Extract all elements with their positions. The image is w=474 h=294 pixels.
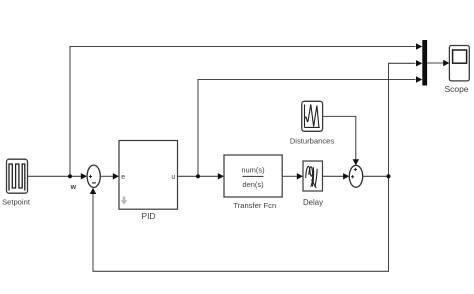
svg-text:Delay: Delay: [303, 198, 323, 207]
wire u branch to Mux: [198, 80, 416, 177]
wire Setpoint to Sum1: [28, 175, 82, 177]
block PID: [119, 141, 178, 210]
sum block Sum2: [349, 165, 362, 187]
svg-text:PID: PID: [141, 211, 155, 221]
PID badge arrow: [121, 197, 128, 205]
wire PID to Transfer Fcn: [178, 175, 219, 177]
svg-text:num(s): num(s): [241, 166, 265, 175]
wire Transfer Fcn to Delay: [282, 175, 297, 177]
junction output node: [386, 174, 390, 178]
arrowhead into PID: [113, 173, 119, 179]
block Delay: [303, 161, 323, 191]
svg-text:den(s): den(s): [242, 180, 264, 189]
svg-text:u: u: [171, 174, 175, 181]
block Disturbances: [302, 101, 323, 131]
svg-text:e: e: [121, 174, 125, 181]
arrowhead into Sum2: [343, 173, 349, 179]
svg-text:w: w: [70, 184, 77, 191]
block Transfer Fcn: [224, 155, 282, 197]
arrowhead into Delay: [297, 173, 303, 179]
junction node w: [68, 174, 72, 178]
arrowhead w into Mux: [416, 43, 422, 49]
block Setpoint: [7, 159, 28, 193]
svg-text:Transfer Fcn: Transfer Fcn: [233, 201, 276, 210]
arrowhead into Scope: [443, 60, 449, 66]
svg-text:Scope: Scope: [444, 84, 468, 94]
wire feedback loop: [93, 176, 389, 271]
sum block Sum1: [87, 165, 100, 187]
svg-text:Setpoint: Setpoint: [2, 198, 31, 207]
wire Delay to Sum2: [323, 175, 344, 177]
wire w branch to Mux: [70, 47, 416, 177]
arrowhead feedback into Sum1 bottom: [90, 188, 96, 194]
wire Sum2 to output node: [363, 175, 389, 177]
svg-text:Disturbances: Disturbances: [290, 137, 335, 146]
arrowhead into Sum1: [81, 173, 87, 179]
junction PID output: [196, 174, 200, 178]
wire Mux to Scope: [427, 62, 444, 64]
arrowhead y into Mux: [416, 60, 422, 66]
block Scope: [449, 46, 469, 81]
arrowhead u into Mux: [416, 76, 422, 82]
wire Sum1 to PID: [100, 175, 113, 177]
mux block Mux: [422, 40, 427, 86]
wire y branch to Mux: [389, 63, 416, 176]
arrowhead into Transfer Fcn: [218, 173, 224, 179]
wire Disturbances to Sum2: [323, 116, 356, 159]
arrowhead into Sum2 top: [353, 159, 359, 165]
